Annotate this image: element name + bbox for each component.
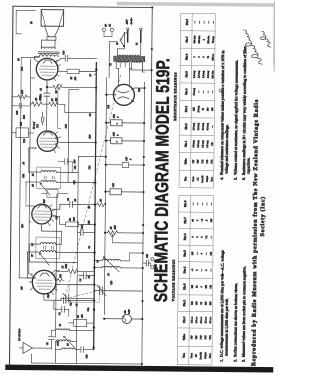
oscillator coil L2 primary xyxy=(94,266,142,277)
svg-text:Use: Use xyxy=(183,176,187,181)
wire: output cathode xyxy=(59,70,67,72)
volume control R3 potentiometer xyxy=(105,224,143,243)
rectifier tube V5 7Y4 xyxy=(113,84,145,105)
svg-text:140: 140 xyxy=(212,142,214,146)
svg-text:C13: C13 xyxy=(39,93,42,98)
svg-text:7B7: 7B7 xyxy=(21,223,24,228)
svg-text:Pin 5: Pin 5 xyxy=(184,71,188,78)
svg-text:C12: C12 xyxy=(36,123,39,128)
svg-text:T1: T1 xyxy=(109,63,112,66)
svg-text:Use: Use xyxy=(182,352,186,357)
svg-text:8: 8 xyxy=(117,116,120,118)
output grid resistor R6 xyxy=(46,85,96,94)
svg-text:Pin 1: Pin 1 xyxy=(182,316,186,323)
converter tube V1 7S7 xyxy=(29,270,56,294)
svg-text:280 ohm: 280 ohm xyxy=(212,70,214,78)
svg-text:—: — xyxy=(203,90,205,94)
svg-text:0: 0 xyxy=(201,236,204,238)
diode load / volume control R3 potentiometer xyxy=(78,155,105,157)
svg-text:C9: C9 xyxy=(32,183,35,187)
svg-text:6.3 a.c.: 6.3 a.c. xyxy=(195,316,198,323)
wire: 7C6 cathode to rail xyxy=(59,141,96,143)
svg-text:C15: C15 xyxy=(146,253,149,258)
svg-text:measurements at 1,000 ohm per: measurements at 1,000 ohm per volt. xyxy=(224,298,230,356)
wire: IF cathode to rail xyxy=(53,216,66,224)
svg-text:.05: .05 xyxy=(22,161,25,165)
svg-text:S1: S1 xyxy=(116,42,119,44)
svg-text:C21: C21 xyxy=(88,166,91,170)
svg-text:Output: Output xyxy=(204,352,207,359)
IF transformer IFT2 shield box xyxy=(36,167,60,188)
output transformer T2 primary xyxy=(21,54,61,57)
svg-text:Tube: Tube xyxy=(183,158,187,165)
svg-text:SP: SP xyxy=(105,23,108,26)
svg-text:0: 0 xyxy=(196,269,199,271)
svg-text:RESISTANCE READINGS: RESISTANCE READINGS xyxy=(173,72,177,121)
svg-text:10 meg: 10 meg xyxy=(197,105,200,112)
svg-text:Rect.: Rect. xyxy=(211,176,213,181)
filter choke / speaker field L3 xyxy=(102,23,113,37)
svg-text:—: — xyxy=(208,90,210,94)
VOLTAGE READINGS table xyxy=(177,195,213,364)
antenna coil L1 secondary xyxy=(52,324,94,331)
svg-text:—: — xyxy=(210,202,213,206)
svg-text:2: 2 xyxy=(203,38,205,40)
svg-text:Tube: Tube xyxy=(182,333,186,340)
wire: common negative return rail (v=143.5) xyxy=(142,82,145,368)
wire: IF plate to IFT2 xyxy=(26,182,40,206)
svg-text:8.5 meg: 8.5 meg xyxy=(192,139,195,147)
svg-text:Pin 7: Pin 7 xyxy=(183,217,187,224)
capacitor C5 (osc grid) xyxy=(63,297,94,306)
svg-text:C28: C28 xyxy=(16,110,19,115)
output transformer T2 secondary xyxy=(41,47,55,49)
svg-text:0.5 meg: 0.5 meg xyxy=(197,122,200,130)
svg-text:L5: L5 xyxy=(32,173,35,177)
tone corrector capacitor C14 xyxy=(56,50,96,63)
svg-text:—: — xyxy=(212,90,214,94)
grid capacitor C12 25mmf xyxy=(33,112,44,129)
svg-text:I.F.: I.F. xyxy=(195,354,198,357)
capacitor C1 (antenna series) xyxy=(46,330,60,348)
svg-text:Rect.: Rect. xyxy=(209,353,212,358)
svg-text:300: 300 xyxy=(73,216,76,220)
svg-text:6.3V: 6.3V xyxy=(128,309,131,314)
wire: converter plate to B+ line xyxy=(19,277,35,279)
svg-text:2: 2 xyxy=(196,236,199,238)
RESISTANCE READINGS table xyxy=(179,13,215,187)
wire: converter signal grid lead xyxy=(44,294,62,309)
svg-text:C5: C5 xyxy=(69,302,72,306)
wave trap coil L5 xyxy=(55,342,78,349)
svg-text:R9: R9 xyxy=(99,198,102,202)
wire: 7C6 grid return xyxy=(32,147,36,149)
svg-text:185: 185 xyxy=(205,301,208,305)
V3 socket pin stubs xyxy=(54,132,61,153)
filter electrolytic C19 (box) xyxy=(106,113,144,126)
svg-text:Society (Inc): Society (Inc) xyxy=(259,196,266,236)
sheet frame line top xyxy=(9,6,12,367)
handwritten annotation (pencil) xyxy=(241,24,275,67)
oscillator coil L2 secondary xyxy=(95,253,143,261)
svg-text:185: 185 xyxy=(195,301,198,305)
wire: speaker voice-coil leads xyxy=(41,40,56,49)
svg-text:C27: C27 xyxy=(125,156,128,161)
svg-text:C19: C19 xyxy=(113,113,116,118)
svg-text:0.5 meg: 0.5 meg xyxy=(202,70,205,78)
svg-text:115V: 115V xyxy=(126,19,129,24)
svg-text:2M: 2M xyxy=(55,97,58,101)
svg-text:250 ohm: 250 ohm xyxy=(208,36,210,44)
loudspeaker SP frame xyxy=(41,10,64,27)
svg-text:0.5 meg: 0.5 meg xyxy=(206,122,209,130)
ganged tuning dashed link xyxy=(65,72,121,297)
IFT1 trimmer capacitors xyxy=(43,246,53,249)
wire: IF screen supply xyxy=(52,208,60,210)
junction dots on B+ rail xyxy=(103,94,107,320)
wire: chassis/common negative thick rail (v=93) xyxy=(94,63,97,350)
svg-text:—: — xyxy=(208,20,210,24)
svg-text:6.3 a.c.: 6.3 a.c. xyxy=(200,316,203,323)
wire: B+ filter rail (v=105.5) xyxy=(104,78,106,315)
svg-text:7S7: 7S7 xyxy=(190,335,193,339)
wire: mains/bottom rail (v=150.5) xyxy=(56,7,153,130)
IFT1 primary winding xyxy=(27,250,94,278)
svg-text:VOLTAGE READINGS: VOLTAGE READINGS xyxy=(171,259,175,301)
converter grid coupling capacitor C4 xyxy=(54,306,69,316)
decoupling resistor R16 xyxy=(12,89,30,99)
svg-text:2.5 meg: 2.5 meg xyxy=(193,70,196,78)
svg-text:R17: R17 xyxy=(43,198,46,204)
svg-text:Pin 2: Pin 2 xyxy=(184,123,188,130)
svg-text:7B7: 7B7 xyxy=(198,159,200,164)
svg-text:6: 6 xyxy=(203,56,205,58)
svg-text:C24: C24 xyxy=(65,124,68,129)
svg-text:63 meg: 63 meg xyxy=(212,36,215,43)
wire: heater line from T1 to tubes xyxy=(94,74,96,76)
svg-text:L4: L4 xyxy=(31,243,34,247)
padder capacitor C3 (box) xyxy=(69,313,94,326)
svg-text:450: 450 xyxy=(81,314,84,318)
svg-text:7S7: 7S7 xyxy=(193,159,195,163)
svg-text:R3: R3 xyxy=(110,226,113,230)
svg-text:−.5: −.5 xyxy=(201,218,204,222)
svg-text:40-60~: 40-60~ xyxy=(130,17,133,25)
svg-text:—: — xyxy=(196,252,199,256)
IFT2 primary winding xyxy=(41,181,95,183)
svg-text:195: 195 xyxy=(210,218,213,222)
label mains 115V 40-60~ xyxy=(126,17,134,25)
IFT2 trimmer capacitors xyxy=(44,176,54,179)
svg-text:79: 79 xyxy=(208,55,210,58)
notes 4-6 under resistance table xyxy=(220,45,252,180)
wire: converter screen feed xyxy=(51,270,59,274)
svg-text:100 ohm: 100 ohm xyxy=(199,35,201,43)
svg-text:.5: .5 xyxy=(205,219,208,222)
svg-text:290: 290 xyxy=(207,107,209,111)
svg-text:Pin 6: Pin 6 xyxy=(184,53,188,60)
svg-text:.0001: .0001 xyxy=(56,341,59,346)
svg-text:0: 0 xyxy=(200,252,203,254)
svg-text:8.5 meg: 8.5 meg xyxy=(197,140,200,148)
svg-text:capacitors.: capacitors. xyxy=(246,157,250,174)
svg-text:8: 8 xyxy=(117,134,120,136)
V4 socket pin stubs xyxy=(54,60,61,81)
svg-text:C26: C26 xyxy=(112,182,115,187)
svg-text:C18: C18 xyxy=(112,131,115,136)
svg-text:S1: S1 xyxy=(135,43,138,45)
svg-text:Pin 2: Pin 2 xyxy=(182,299,186,306)
V2 socket pin stubs xyxy=(48,205,56,226)
wire: top corner link near speaker xyxy=(16,10,35,34)
svg-text:—: — xyxy=(204,20,206,24)
svg-text:10K: 10K xyxy=(194,107,196,111)
wire: B+ plate supply line (top, v=20) xyxy=(19,57,21,277)
svg-text:6.3 a.c.: 6.3 a.c. xyxy=(209,316,212,323)
svg-text:2: 2 xyxy=(194,56,196,58)
output tube V4 7C5 xyxy=(36,58,58,80)
svg-text:7Y4: 7Y4 xyxy=(211,159,213,164)
svg-text:I.F.: I.F. xyxy=(197,177,199,180)
output transformer T2 core xyxy=(38,52,59,54)
svg-text:7C5: 7C5 xyxy=(204,335,207,340)
svg-text:Pin 6: Pin 6 xyxy=(183,233,187,240)
svg-text:0: 0 xyxy=(199,56,201,58)
svg-text:90: 90 xyxy=(191,218,194,221)
svg-text:—: — xyxy=(213,20,215,24)
svg-text:C3: C3 xyxy=(77,314,80,318)
svg-text:C25: C25 xyxy=(88,220,91,225)
svg-text:0.5 meg: 0.5 meg xyxy=(207,70,210,78)
svg-text:L2: L2 xyxy=(96,259,99,263)
IF filter resistor R15 (box) above 7C6 xyxy=(12,121,34,137)
svg-text:0.5 meg: 0.5 meg xyxy=(193,87,196,95)
pencil mark o xyxy=(219,89,222,92)
misc component labels xyxy=(21,42,142,313)
T1 HT secondary winding xyxy=(116,61,152,70)
svg-text:R7: R7 xyxy=(70,76,73,80)
svg-text:7S7: 7S7 xyxy=(21,285,24,289)
svg-text:—: — xyxy=(192,202,195,206)
svg-text:½M: ½M xyxy=(114,224,117,229)
svg-text:R7: R7 xyxy=(89,73,92,77)
svg-text:3. Measured values are from s: 3. Measured values are from socket pin t… xyxy=(242,266,247,362)
loudspeaker SP voice coil xyxy=(47,37,56,40)
T1 core laminations xyxy=(114,56,145,61)
svg-text:7C5: 7C5 xyxy=(207,159,209,164)
wire: output plate to OPT xyxy=(34,57,39,63)
svg-text:C8: C8 xyxy=(67,197,70,201)
svg-text:7C6: 7C6 xyxy=(200,335,203,340)
antenna coil L1 primary xyxy=(56,340,77,342)
svg-text:Conv.: Conv. xyxy=(190,352,193,358)
svg-text:2. Socket connections are sho: 2. Socket connections are shown as botto… xyxy=(233,283,238,362)
power transformer T1 core xyxy=(114,56,145,62)
audio decoupling capacitor C17 xyxy=(106,140,144,146)
wire: rectifier output B+ link xyxy=(109,42,117,78)
svg-text:R15: R15 xyxy=(20,121,23,127)
svg-text:8.5 meg: 8.5 meg xyxy=(201,140,204,148)
screen feed resistor R17 (box) xyxy=(42,190,68,205)
svg-text:C7: C7 xyxy=(31,253,34,257)
svg-text:voltage and resistance reading: voltage and resistance readings. xyxy=(225,124,229,174)
svg-text:C11: C11 xyxy=(74,166,77,170)
wire: cathode line det-output xyxy=(58,84,61,128)
IF transformer IFT1 shield box xyxy=(36,237,60,258)
svg-text:−3: −3 xyxy=(191,268,194,271)
svg-text:0: 0 xyxy=(191,236,194,238)
svg-text:—: — xyxy=(209,268,212,272)
detector diode capacitor C11 xyxy=(58,158,77,172)
mains plug P1 xyxy=(124,28,142,47)
dial lamp DL xyxy=(104,309,142,324)
svg-text:90: 90 xyxy=(195,285,198,288)
svg-text:C29: C29 xyxy=(85,354,88,359)
antenna A1 xyxy=(19,342,51,353)
svg-text:.02: .02 xyxy=(89,113,92,117)
svg-text:L5: L5 xyxy=(66,343,69,347)
svg-text:C23: C23 xyxy=(73,180,76,185)
T1 primary winding xyxy=(117,33,141,56)
svg-text:0: 0 xyxy=(196,219,199,221)
det-AF tube V3 7C6 xyxy=(37,131,58,152)
svg-text:R5: R5 xyxy=(35,97,38,101)
svg-text:Pin 4: Pin 4 xyxy=(182,266,186,273)
svg-text:105 a.c.: 105 a.c. xyxy=(212,53,214,60)
svg-text:—: — xyxy=(200,268,203,272)
svg-text:Pin 8: Pin 8 xyxy=(183,200,187,207)
trimmer arrow through L2 xyxy=(103,257,119,272)
svg-text:0.5 meg: 0.5 meg xyxy=(192,122,195,130)
svg-text:L4: L4 xyxy=(88,245,91,249)
wire: heater string line xyxy=(68,89,79,182)
svg-text:7C6: 7C6 xyxy=(202,159,204,164)
svg-text:C2a: C2a xyxy=(87,307,90,312)
svg-text:140: 140 xyxy=(210,251,213,255)
svg-text:C2b: C2b xyxy=(110,280,113,285)
tuning gang C2a (aerial section) xyxy=(56,293,94,306)
svg-text:C6: C6 xyxy=(79,278,82,282)
wire: screen supply line (v=29.5) xyxy=(28,59,35,274)
svg-text:Det-AF.: Det-AF. xyxy=(201,175,204,183)
svg-text:2.5 meg: 2.5 meg xyxy=(197,70,200,78)
scan edge shading bottom-right xyxy=(273,1,277,64)
svg-text:SP: SP xyxy=(30,21,33,24)
svg-text:7Y4: 7Y4 xyxy=(107,104,110,109)
svg-text:—: — xyxy=(194,20,196,24)
svg-text:105: 105 xyxy=(191,284,194,288)
notes 1-3 under voltage table xyxy=(220,250,247,362)
loudspeaker SP cone xyxy=(44,26,59,37)
tuning gang C2b (oscillator section) xyxy=(94,286,142,296)
svg-text:350: 350 xyxy=(209,301,212,305)
svg-text:Pin 7: Pin 7 xyxy=(185,36,189,43)
AVC filter resistor R8 xyxy=(76,184,81,204)
capacitor C6 (osc coupling) xyxy=(79,272,94,281)
plate load resistor R5 xyxy=(30,95,47,106)
svg-text:R11: R11 xyxy=(59,274,62,279)
svg-text:15: 15 xyxy=(203,107,205,110)
svg-text:140: 140 xyxy=(209,284,212,288)
T1 heater secondary winding xyxy=(120,61,145,72)
svg-text:C1: C1 xyxy=(46,342,49,345)
svg-text:—: — xyxy=(205,202,208,206)
wire: rectifier plates to HT secondary xyxy=(116,68,132,85)
AF grid leak R4 xyxy=(47,97,96,113)
svg-text:7Y4: 7Y4 xyxy=(209,335,212,340)
svg-text:R9: R9 xyxy=(88,205,91,209)
svg-text:T2: T2 xyxy=(17,58,20,61)
wire: 7C6 plate to coupling node xyxy=(46,96,48,129)
svg-text:Pin 1: Pin 1 xyxy=(184,140,188,147)
svg-text:Reproduced by Radio Museum wit: Reproduced by Radio Museum with permissi… xyxy=(251,99,260,366)
junction dots on mains rail xyxy=(151,6,154,71)
svg-text:Pin 3: Pin 3 xyxy=(182,283,186,290)
gang sections dashed mechanical link xyxy=(70,289,102,297)
svg-text:DL: DL xyxy=(124,310,127,315)
cathode resistor R2 (box) xyxy=(66,216,95,226)
IF amplifier tube V2 7B7 xyxy=(32,204,52,224)
svg-text:Pin 8: Pin 8 xyxy=(185,18,189,25)
decoupling resistor R14 (box) xyxy=(106,156,144,168)
bias electrolytic C26 (box) xyxy=(105,182,143,195)
svg-text:—: — xyxy=(201,202,204,206)
svg-text:I.F. 455 Kc/s: I.F. 455 Kc/s xyxy=(18,329,21,342)
IFT1 tuning adjustment arrow xyxy=(39,253,49,265)
svg-text:—: — xyxy=(212,125,214,129)
svg-text:0.5 meg: 0.5 meg xyxy=(202,122,205,130)
wire: rectifier cathode to B+ rail xyxy=(106,94,113,96)
svg-text:SCHEMATIC DIAGRAM MODEL 519P.: SCHEMATIC DIAGRAM MODEL 519P. xyxy=(150,58,173,302)
svg-text:R10: R10 xyxy=(88,134,91,140)
svg-text:C4: C4 xyxy=(58,312,61,316)
scan edge shading right xyxy=(117,2,277,7)
svg-text:R13: R13 xyxy=(73,159,76,165)
svg-text:7C6: 7C6 xyxy=(23,138,26,143)
svg-text:90: 90 xyxy=(200,301,203,304)
decoupling capacitor C28 xyxy=(12,103,30,115)
mains switch S1 xyxy=(116,32,125,47)
svg-text:8.5 meg: 8.5 meg xyxy=(206,140,209,148)
IFT2 secondary winding xyxy=(29,148,79,172)
power transformer T1 core edges xyxy=(114,56,145,61)
junction dots on negative rail xyxy=(141,87,146,365)
svg-text:6.3 a.c.: 6.3 a.c. xyxy=(191,316,194,323)
screen bypass capacitor C8 xyxy=(60,197,95,209)
svg-text:C14: C14 xyxy=(62,50,65,55)
svg-text:0: 0 xyxy=(200,285,203,287)
svg-text:105: 105 xyxy=(191,251,194,255)
svg-text:—: — xyxy=(205,252,208,256)
svg-text:Pin 4: Pin 4 xyxy=(184,88,188,95)
svg-text:180: 180 xyxy=(205,284,208,288)
IFT1 secondary winding xyxy=(29,225,77,262)
sheet frame line right xyxy=(13,5,57,7)
AF coupling capacitor C10 xyxy=(98,122,118,167)
svg-text:+: + xyxy=(115,123,119,125)
svg-text:—: — xyxy=(196,202,199,206)
svg-text:8: 8 xyxy=(129,158,132,160)
svg-text:R2: R2 xyxy=(69,217,72,221)
junction dots on thick rail xyxy=(93,68,98,348)
filter electrolytic C18 (box) xyxy=(106,131,144,144)
svg-text:25 mmf: 25 mmf xyxy=(33,122,36,129)
cathode bias resistor R7 (box) xyxy=(67,69,96,80)
svg-text:R6: R6 xyxy=(55,90,58,94)
svg-text:150: 150 xyxy=(74,76,77,80)
svg-text:—: — xyxy=(198,90,200,94)
wire: AVC bus (v=78) xyxy=(76,156,78,363)
